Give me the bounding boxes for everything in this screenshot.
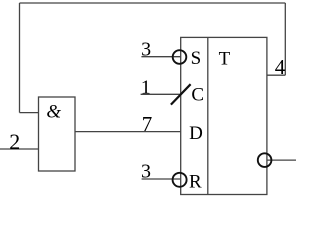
wire input 2 [0, 148, 39, 150]
dynamic input slash C [171, 84, 191, 104]
inversion circle S input [173, 50, 187, 64]
wire inverted output [267, 159, 296, 161]
svg-text:3: 3 [141, 161, 151, 183]
inversion circle R input [173, 173, 187, 187]
inversion circle output [258, 153, 272, 167]
svg-text:S: S [191, 48, 202, 69]
svg-text:3: 3 [141, 39, 151, 61]
flip-flop DD2 body [181, 37, 267, 194]
svg-text:C: C [191, 84, 204, 105]
svg-text:2: 2 [9, 129, 20, 154]
flip-flop control section divider [207, 37, 209, 194]
wire feedback top [20, 2, 286, 4]
svg-text:T: T [219, 49, 231, 70]
wire feedback left vertical [19, 3, 21, 113]
wire C input [141, 93, 181, 95]
svg-text:D: D [189, 123, 203, 144]
svg-text:1: 1 [141, 77, 151, 99]
svg-text:R: R [189, 171, 202, 192]
wire output 4 [267, 74, 285, 76]
AND gate DD1 body [39, 97, 76, 171]
wire feedback right vertical [284, 3, 286, 75]
wire S input [141, 56, 180, 58]
svg-text:4: 4 [275, 55, 286, 79]
wire AND input 1 [20, 112, 39, 114]
svg-text:&: & [46, 102, 61, 123]
wire D (AND output to D input) [75, 131, 181, 133]
wire R input [142, 178, 181, 180]
svg-text:7: 7 [142, 112, 153, 136]
